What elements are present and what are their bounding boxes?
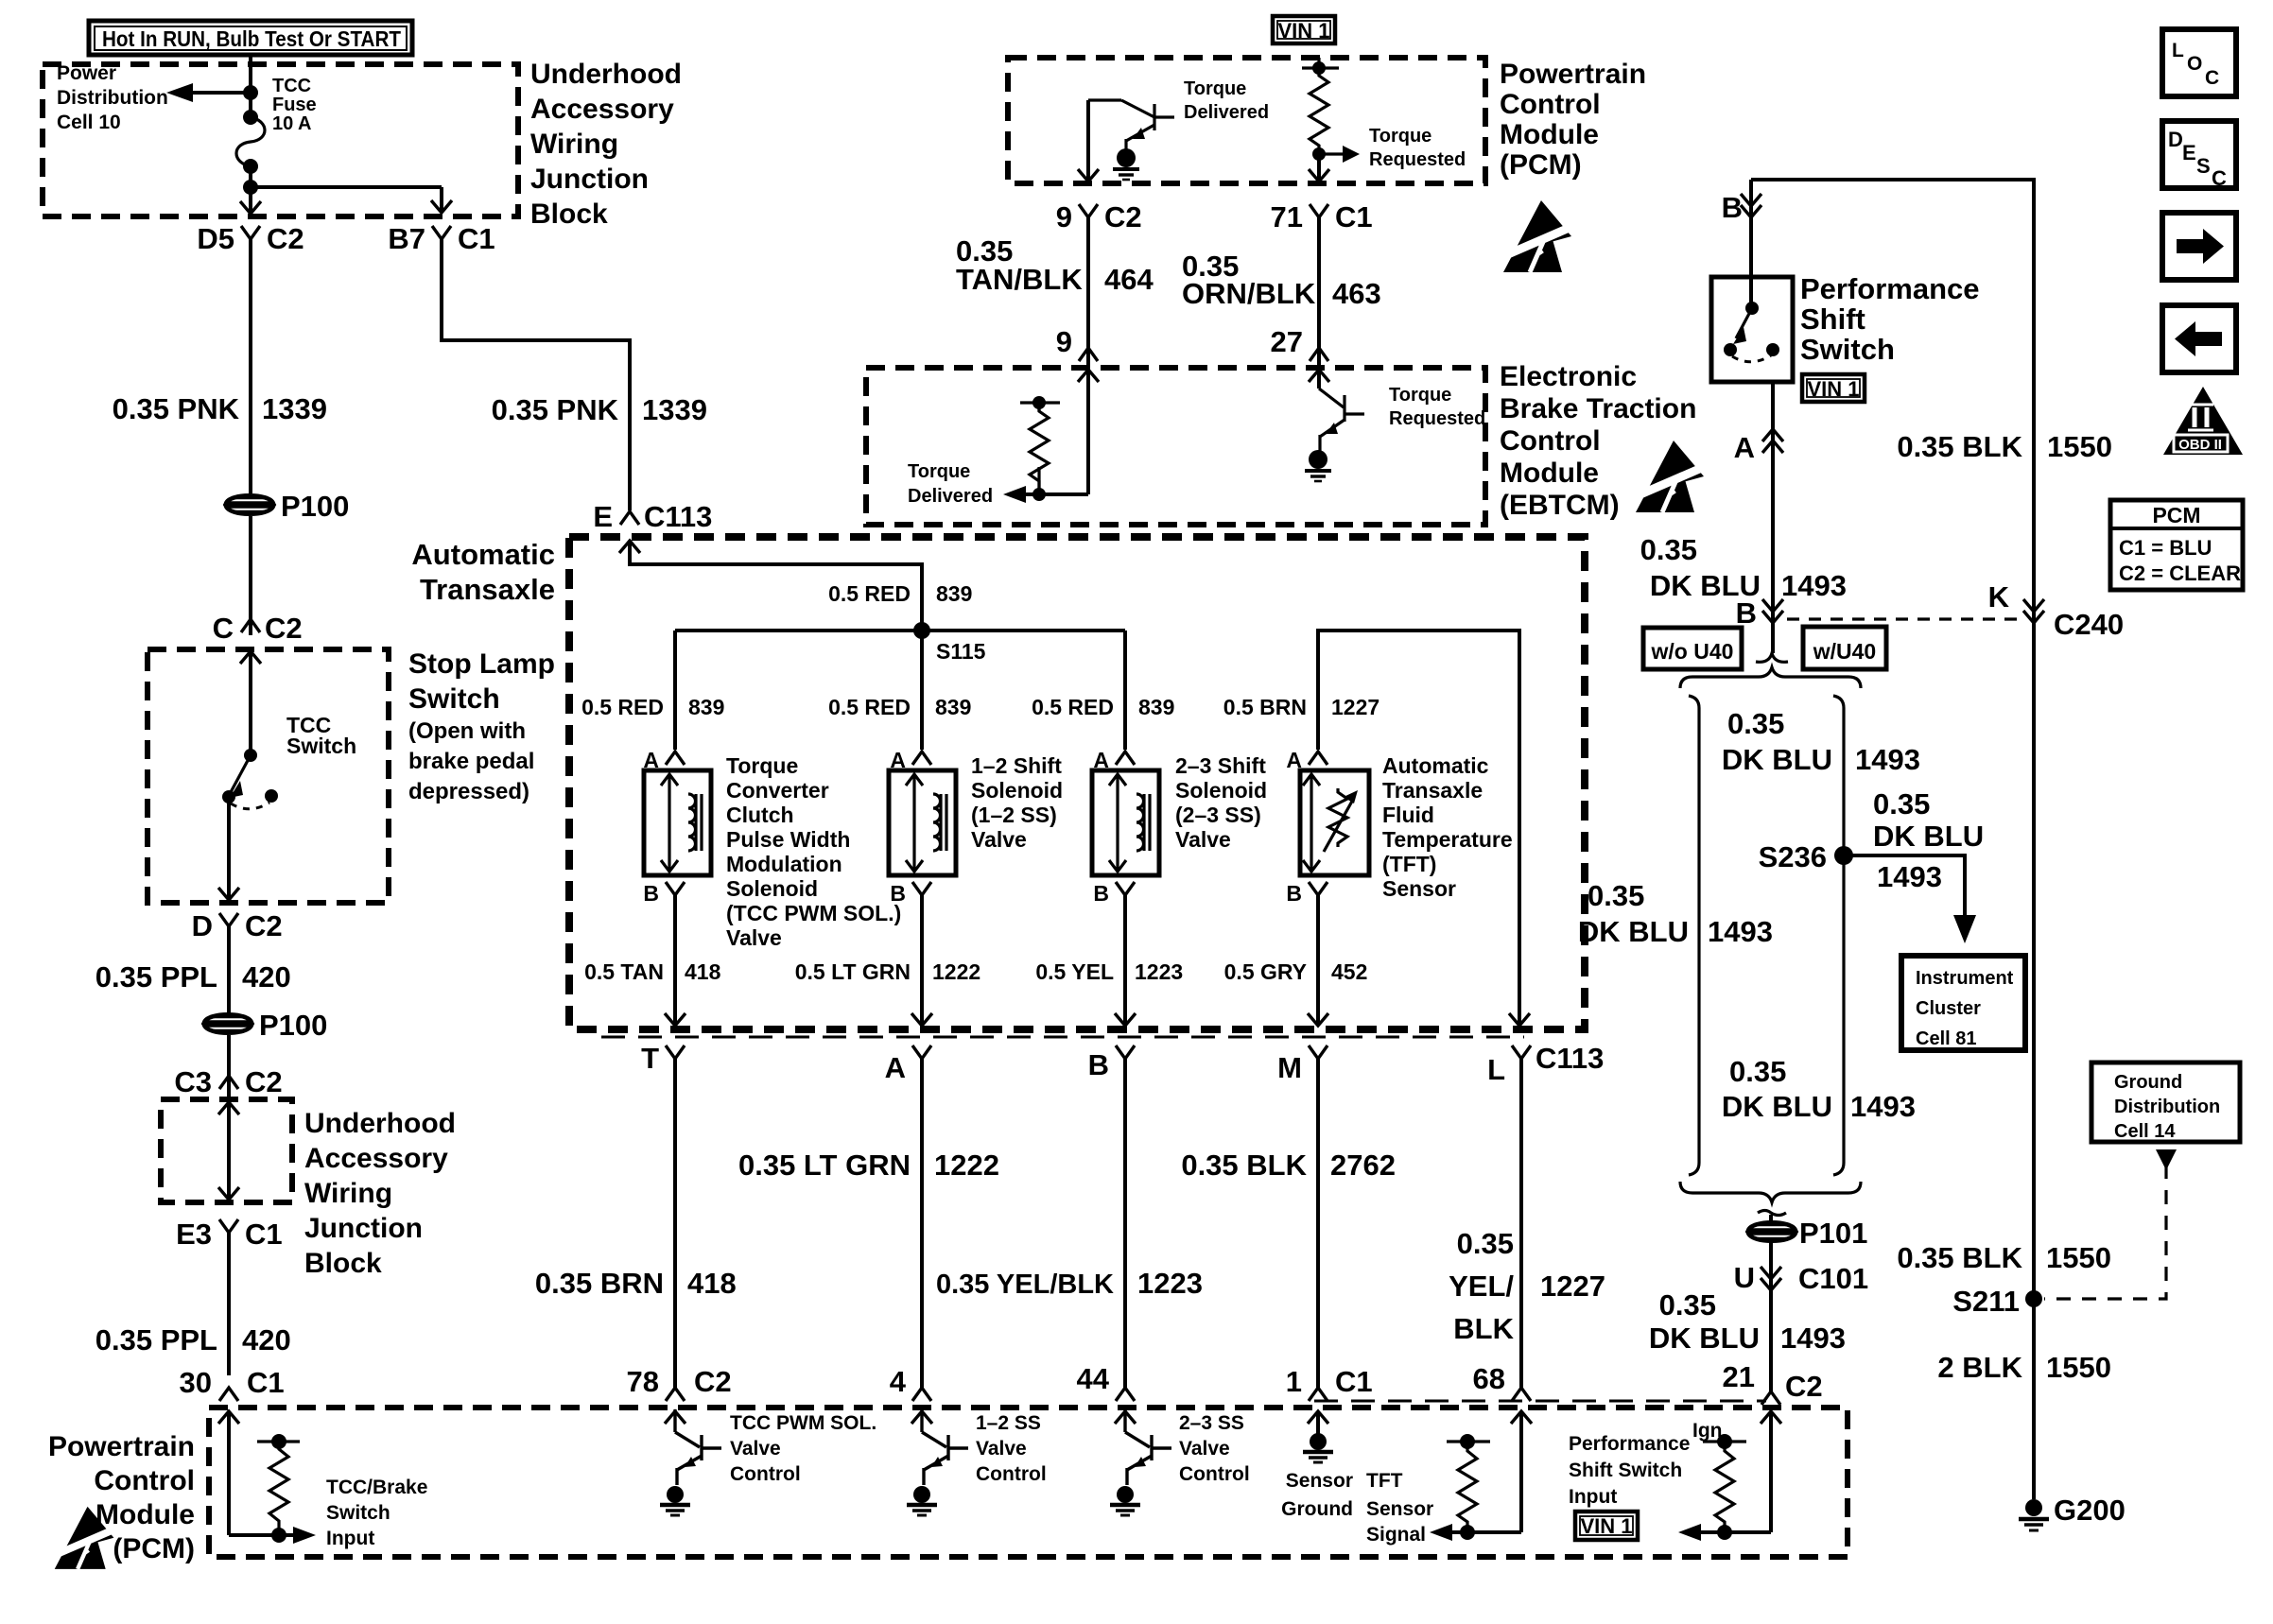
svg-text:C240: C240	[2054, 608, 2124, 641]
label VIN 1 (switch)	[1802, 374, 1865, 402]
connector pin 68	[1473, 1362, 1531, 1401]
svg-text:0.35: 0.35	[1659, 1288, 1716, 1322]
svg-text:YEL/: YEL/	[1449, 1270, 1514, 1303]
label 0.35 BRN 418	[535, 1267, 737, 1300]
bus wire S115	[675, 629, 1125, 632]
svg-text:Hot In RUN, Bulb Test Or START: Hot In RUN, Bulb Test Or START	[102, 26, 401, 51]
svg-text:0.5 RED: 0.5 RED	[1032, 695, 1114, 719]
icon LOC	[2162, 29, 2236, 96]
svg-text:Ground: Ground	[1281, 1498, 1353, 1520]
svg-text:B: B	[1286, 881, 1302, 906]
svg-text:Clutch: Clutch	[726, 803, 794, 827]
resistor Torque Requested (PCM)	[1302, 58, 1360, 163]
svg-text:Accessory: Accessory	[530, 94, 674, 125]
svg-text:0.5 LT GRN: 0.5 LT GRN	[795, 959, 911, 984]
connector B (switch)	[1722, 191, 1761, 224]
svg-text:(TCC PWM SOL.): (TCC PWM SOL.)	[726, 901, 901, 925]
svg-text:Torque: Torque	[1184, 78, 1246, 99]
svg-text:P101: P101	[1799, 1217, 1867, 1250]
svg-text:Valve: Valve	[1175, 827, 1231, 852]
svg-text:C2: C2	[694, 1365, 732, 1398]
svg-text:0.5 TAN: 0.5 TAN	[584, 959, 664, 984]
svg-text:2 BLK: 2 BLK	[1937, 1351, 2022, 1384]
label Torque Converter Clutch Pulse Width Modulation Solenoid (TCC PWM SOL.) Valve	[726, 753, 901, 950]
PCM box (bottom)	[209, 1408, 1848, 1557]
resistor TFT Sensor Signal	[1447, 1434, 1490, 1540]
svg-text:Shift: Shift	[1800, 302, 1865, 336]
label 0.5 YEL 1223	[1035, 959, 1183, 984]
label 2 BLK 1550	[1937, 1351, 2111, 1384]
label 0.5 RED 839 (feed)	[828, 581, 972, 606]
svg-text:Control: Control	[1179, 1463, 1250, 1485]
grommet P100 (upper)	[226, 495, 273, 514]
wire 0.35 BLK 1550 (top run)	[1751, 180, 2034, 1499]
svg-text:BLK: BLK	[1453, 1312, 1514, 1345]
svg-text:0.35 PNK: 0.35 PNK	[113, 392, 240, 425]
svg-text:VIN 1: VIN 1	[1580, 1514, 1632, 1538]
grommet P101	[1748, 1222, 1796, 1241]
label 2-3 Shift Solenoid (2-3 SS) Valve	[1175, 753, 1267, 852]
svg-text:C113: C113	[644, 500, 712, 533]
wire 0.5 YEL 1223	[1115, 895, 1136, 1026]
wire out of stop lamp switch	[218, 797, 239, 900]
EBTCM box	[866, 368, 1485, 525]
svg-text:0.35: 0.35	[1640, 533, 1697, 566]
svg-text:(TFT): (TFT)	[1382, 852, 1436, 876]
label 2-3 SS Valve Control	[1179, 1412, 1250, 1485]
svg-text:0.35 BLK: 0.35 BLK	[1181, 1149, 1307, 1182]
svg-text:463: 463	[1332, 277, 1381, 310]
svg-text:C1: C1	[1335, 200, 1373, 233]
wire 0.35 PPL 420 (lower)	[227, 1233, 231, 1375]
svg-text:Switch: Switch	[408, 683, 500, 715]
svg-text:Block: Block	[530, 199, 608, 230]
svg-text:0.35: 0.35	[1727, 707, 1784, 740]
label w/U40	[1803, 627, 1886, 669]
bundle merge brace (bottom)	[1680, 1182, 1861, 1222]
svg-text:Powertrain: Powertrain	[48, 1431, 195, 1462]
svg-text:Fuse: Fuse	[272, 95, 317, 115]
svg-text:P100: P100	[259, 1009, 327, 1042]
label Powertrain Control Module (PCM) (bottom)	[48, 1431, 195, 1564]
label TCC Fuse 10 A	[272, 76, 317, 134]
svg-text:68: 68	[1473, 1362, 1505, 1395]
wire P100 to C3	[227, 1035, 231, 1097]
label VIN 1 (top)	[1273, 16, 1335, 43]
svg-text:Transaxle: Transaxle	[420, 573, 555, 606]
icon arrow right	[2162, 213, 2236, 280]
svg-text:C: C	[213, 612, 234, 645]
wire PCM pin 71 C1 to EBTCM pin 27	[1309, 154, 1329, 382]
svg-text:420: 420	[242, 960, 291, 993]
svg-text:839: 839	[1138, 695, 1174, 719]
svg-text:1–2 SS: 1–2 SS	[976, 1412, 1041, 1434]
svg-text:Ign: Ign	[1692, 1420, 1723, 1442]
wire PCM pin 9 C2 to EBTCM pin 9	[1078, 100, 1099, 382]
svg-text:Stop Lamp: Stop Lamp	[408, 648, 555, 680]
svg-text:1550: 1550	[2046, 1241, 2111, 1274]
svg-text:0.5 GRY: 0.5 GRY	[1224, 959, 1307, 984]
svg-text:Sensor: Sensor	[1382, 876, 1456, 901]
svg-text:Solenoid: Solenoid	[971, 778, 1063, 803]
connector pin B (TFT sensor)	[1286, 881, 1327, 906]
svg-text:Torque: Torque	[1389, 385, 1451, 406]
svg-text:1493: 1493	[1850, 1090, 1916, 1123]
connector K C240	[1988, 580, 2125, 641]
svg-text:71: 71	[1271, 200, 1303, 233]
svg-text:Module: Module	[1500, 119, 1599, 150]
svg-text:2–3 Shift: 2–3 Shift	[1175, 753, 1266, 778]
svg-text:VIN 1: VIN 1	[1277, 19, 1329, 43]
svg-text:Valve: Valve	[730, 1438, 781, 1460]
svg-text:1: 1	[1286, 1365, 1302, 1398]
label TFT Sensor Signal	[1366, 1470, 1433, 1546]
wire E C113 to splice S115	[619, 541, 922, 631]
svg-text:Wiring: Wiring	[530, 129, 618, 160]
icon DESC	[2162, 121, 2236, 190]
wire 0.5 RED 839 to 1-2 solenoid	[920, 631, 924, 750]
connector pin 4	[890, 1365, 931, 1401]
svg-text:C1: C1	[247, 1366, 285, 1399]
svg-text:Cluster: Cluster	[1916, 998, 1981, 1019]
ground (Torque Delivered driver)	[1113, 148, 1139, 180]
connector E C113	[593, 500, 712, 533]
svg-text:Switch: Switch	[286, 734, 356, 758]
svg-text:A: A	[885, 1051, 906, 1084]
wire w/U40 branch (right arm)	[1833, 696, 1844, 1175]
svg-text:C: C	[2212, 166, 2227, 190]
wire 0.5 RED 839 to TCC solenoid	[673, 631, 677, 750]
svg-text:0.35: 0.35	[1457, 1227, 1514, 1260]
svg-text:B: B	[643, 881, 659, 906]
wire below fuse to D5	[240, 166, 261, 214]
connector 71 C1	[1271, 200, 1373, 233]
svg-text:464: 464	[1104, 263, 1154, 296]
svg-text:OBD II: OBD II	[2178, 437, 2222, 453]
svg-text:(PCM): (PCM)	[113, 1533, 195, 1564]
svg-text:0.5 YEL: 0.5 YEL	[1035, 959, 1114, 984]
svg-text:0.35 YEL/BLK: 0.35 YEL/BLK	[936, 1270, 1114, 1300]
svg-text:(Open with: (Open with	[408, 718, 526, 744]
svg-text:0.5 RED: 0.5 RED	[828, 581, 911, 606]
label Stop Lamp Switch (Open with brake pedal depressed)	[408, 648, 555, 804]
svg-text:Delivered: Delivered	[1184, 102, 1269, 123]
svg-text:C: C	[2205, 67, 2219, 89]
label 0.35 LT GRN 1222	[738, 1149, 999, 1182]
wire pin 1 to sensor ground	[1308, 1411, 1328, 1434]
connector U C101	[1734, 1261, 1869, 1295]
svg-text:30: 30	[180, 1366, 212, 1399]
svg-text:w/o U40: w/o U40	[1651, 639, 1734, 664]
solenoid TCC PWM (Torque Converter Clutch PWM Solenoid Valve)	[644, 770, 711, 875]
label Underhood Accessory Wiring Junction Block (lower)	[304, 1108, 456, 1279]
svg-text:0.35 BLK: 0.35 BLK	[1897, 1241, 2022, 1274]
svg-text:Requested: Requested	[1369, 149, 1466, 170]
svg-text:Cell 14: Cell 14	[2114, 1121, 2176, 1142]
transistor TCC PWM SOL Valve Control	[665, 1409, 721, 1485]
label 0.35 DK BLU 1493 (to pin 21)	[1649, 1288, 1846, 1355]
svg-text:G200: G200	[2054, 1494, 2126, 1527]
wire pin 21 internal (Ign)	[1678, 1411, 1781, 1541]
svg-text:Torque: Torque	[726, 753, 798, 778]
svg-text:Block: Block	[304, 1248, 382, 1279]
ESD symbol (top PCM)	[1501, 200, 1571, 272]
svg-text:418: 418	[687, 1267, 737, 1300]
wire 0.35 BRN 418	[673, 1059, 677, 1388]
svg-text:Module: Module	[1500, 458, 1599, 489]
connector pin A (TCC solenoid)	[643, 748, 685, 772]
svg-text:E: E	[2182, 141, 2196, 164]
label 0.35 BLK 1550 (lower)	[1897, 1241, 2111, 1274]
svg-text:Valve: Valve	[976, 1438, 1027, 1460]
label Torque Delivered (PCM)	[1184, 78, 1269, 123]
svg-text:Automatic: Automatic	[411, 538, 555, 571]
wire branch to B7	[251, 187, 452, 213]
svg-text:brake pedal: brake pedal	[408, 749, 534, 774]
resistor Performance Shift Switch Input	[1703, 1434, 1746, 1540]
svg-text:E3: E3	[176, 1218, 212, 1251]
connector L C113	[1487, 1042, 1604, 1086]
svg-text:C2 = CLEAR: C2 = CLEAR	[2119, 561, 2241, 585]
svg-text:0.35 BLK: 0.35 BLK	[1897, 430, 2022, 463]
svg-text:TCC PWM SOL.: TCC PWM SOL.	[730, 1412, 876, 1434]
label Powertrain Control Module (PCM)	[1500, 59, 1646, 181]
svg-text:Performance: Performance	[1800, 272, 1980, 305]
svg-text:K: K	[1988, 580, 2010, 613]
svg-text:27: 27	[1271, 325, 1303, 358]
label Performance Shift Switch	[1800, 272, 1980, 366]
svg-text:A: A	[1734, 431, 1755, 464]
svg-text:Module: Module	[95, 1499, 195, 1530]
svg-text:Control: Control	[1500, 89, 1601, 120]
connector pin A (2-3 solenoid)	[1093, 748, 1135, 772]
connector pin B (2-3 solenoid)	[1093, 881, 1135, 906]
svg-text:(1–2 SS): (1–2 SS)	[971, 803, 1057, 827]
svg-text:C2: C2	[245, 909, 283, 942]
svg-text:Solenoid: Solenoid	[1175, 778, 1267, 803]
svg-text:Accessory: Accessory	[304, 1143, 448, 1174]
svg-text:0.35: 0.35	[1873, 787, 1930, 821]
svg-text:Requested: Requested	[1389, 408, 1485, 429]
svg-text:Torque: Torque	[908, 461, 970, 482]
svg-text:Electronic: Electronic	[1500, 361, 1637, 392]
label Automatic Transaxle	[411, 538, 555, 606]
label Performance Shift Switch Input	[1569, 1433, 1690, 1508]
icon arrow left	[2162, 305, 2236, 372]
svg-text:TFT: TFT	[1366, 1470, 1403, 1492]
svg-text:Valve: Valve	[726, 925, 782, 950]
connector pin A (TFT sensor)	[1286, 748, 1327, 772]
wire 0.5 LT GRN 1222	[911, 895, 932, 1026]
svg-text:9: 9	[1056, 200, 1072, 233]
svg-text:0.35 PNK: 0.35 PNK	[492, 393, 619, 426]
svg-text:Converter: Converter	[726, 778, 829, 803]
connector D5 C2	[197, 222, 304, 255]
svg-text:44: 44	[1077, 1362, 1110, 1395]
svg-text:C1: C1	[458, 222, 495, 255]
arrow into C113 on L branch	[1509, 1013, 1530, 1026]
bundle split brace (top)	[1680, 653, 1861, 688]
svg-text:Powertrain: Powertrain	[1500, 59, 1646, 90]
svg-text:O: O	[2187, 53, 2202, 75]
svg-text:B: B	[1736, 596, 1757, 630]
sensor TFT (Automatic Transaxle Fluid Temperature)	[1300, 770, 1369, 875]
label 0.5 RED 839 (TCC)	[581, 695, 724, 719]
svg-text:C101: C101	[1798, 1262, 1868, 1295]
svg-text:C113: C113	[1536, 1042, 1604, 1075]
svg-text:1339: 1339	[642, 393, 707, 426]
svg-text:Input: Input	[326, 1528, 374, 1549]
wire 0.35 PNK 1339 (right, B7 to E C113)	[442, 239, 630, 510]
svg-text:Torque: Torque	[1369, 126, 1431, 147]
svg-text:0.5 RED: 0.5 RED	[581, 695, 664, 719]
svg-text:0.35 BRN: 0.35 BRN	[535, 1267, 664, 1300]
svg-text:Cell 10: Cell 10	[57, 112, 121, 133]
svg-text:DK BLU: DK BLU	[1649, 1322, 1760, 1355]
svg-text:C1 = BLU: C1 = BLU	[2119, 536, 2212, 560]
wire: feed from Hot box into junction block	[249, 55, 252, 117]
svg-text:E: E	[593, 500, 613, 533]
legend PCM connector colors	[2110, 500, 2243, 590]
svg-text:1493: 1493	[1780, 1322, 1846, 1355]
svg-text:Control: Control	[94, 1465, 195, 1496]
svg-text:DK BLU: DK BLU	[1873, 820, 1984, 853]
connector T C113	[641, 1042, 685, 1075]
svg-text:Distribution: Distribution	[57, 87, 168, 109]
svg-text:(PCM): (PCM)	[1500, 149, 1582, 181]
wire 0.5 TAN 418	[665, 895, 685, 1026]
svg-text:S236: S236	[1759, 840, 1827, 873]
svg-text:Performance: Performance	[1569, 1433, 1690, 1455]
svg-text:D: D	[192, 909, 213, 942]
fuse TCC Fuse 10 A	[236, 110, 265, 174]
label 0.5 RED 839 (2-3)	[1032, 695, 1174, 719]
label 0.35 BLK 2762	[1181, 1149, 1396, 1182]
svg-text:VIN 1: VIN 1	[1807, 377, 1859, 401]
svg-text:Wiring: Wiring	[304, 1178, 392, 1209]
resistor Torque Delivered (EBTCM)	[1020, 396, 1060, 501]
svg-text:Control: Control	[1500, 425, 1601, 457]
svg-text:4: 4	[890, 1365, 907, 1398]
svg-text:Valve: Valve	[1179, 1438, 1230, 1460]
svg-text:Underhood: Underhood	[304, 1108, 456, 1139]
label 0.35 ORN/BLK 463	[1182, 250, 1381, 310]
svg-text:T: T	[641, 1042, 659, 1075]
svg-text:Sensor: Sensor	[1286, 1470, 1353, 1492]
label 0.35 YEL/BLK 1223	[936, 1267, 1203, 1300]
svg-text:C2: C2	[267, 222, 304, 255]
ground (TCC PWM driver)	[660, 1486, 690, 1515]
svg-text:B: B	[1722, 191, 1743, 224]
svg-text:L: L	[1487, 1053, 1505, 1086]
svg-text:Modulation: Modulation	[726, 852, 842, 876]
label: Hot In RUN, Bulb Test Or START	[89, 21, 412, 55]
automatic transaxle box	[569, 537, 1585, 1029]
svg-text:0.35 PPL: 0.35 PPL	[95, 960, 217, 993]
svg-text:0.35 PPL: 0.35 PPL	[95, 1323, 217, 1356]
connector E3 C1	[176, 1218, 283, 1251]
svg-text:C1: C1	[1335, 1365, 1373, 1398]
wire w/o U40 branch (left arm)	[1689, 696, 1699, 1175]
svg-text:418: 418	[685, 959, 721, 984]
svg-text:depressed): depressed)	[408, 779, 529, 804]
label 0.35 DK BLU 1493 (left arm)	[1578, 879, 1773, 948]
wire A of switch down to C240	[1762, 382, 1783, 653]
svg-text:1550: 1550	[2047, 430, 2112, 463]
splice S211	[1952, 1285, 2042, 1318]
performance shift switch	[1711, 277, 1793, 382]
label 0.35 PPL 420 (upper)	[95, 960, 291, 993]
svg-text:Solenoid: Solenoid	[726, 876, 818, 901]
wire 0.35 PPL 420 (upper)	[227, 926, 231, 1013]
label Torque Requested (PCM)	[1369, 126, 1466, 170]
svg-text:Transaxle: Transaxle	[1382, 778, 1483, 803]
wire P100 to C C2	[249, 516, 252, 635]
wire 0.35 BLK 2762	[1316, 1059, 1320, 1388]
connector pin 21 C2	[1723, 1360, 1823, 1405]
wire into stop lamp switch	[240, 651, 261, 755]
wire P101 to pin 21	[1769, 1241, 1773, 1391]
svg-text:DK BLU: DK BLU	[1722, 743, 1832, 776]
svg-text:1227: 1227	[1331, 695, 1379, 719]
svg-text:S115: S115	[936, 639, 986, 664]
label 0.5 BRN 1227	[1223, 695, 1379, 719]
splice S236	[1759, 840, 1853, 873]
svg-text:S211: S211	[1952, 1285, 2020, 1318]
svg-text:1493: 1493	[1877, 860, 1942, 893]
svg-text:TCC: TCC	[272, 76, 311, 96]
wire 0.5 BRN 1227 TFT feed and L branch	[1318, 631, 1519, 1026]
label 1-2 Shift Solenoid (1-2 SS) Valve	[971, 753, 1063, 852]
svg-text:(EBTCM): (EBTCM)	[1500, 490, 1620, 521]
svg-text:0.35 LT GRN: 0.35 LT GRN	[738, 1149, 911, 1182]
svg-text:C2: C2	[1104, 200, 1142, 233]
svg-text:C2: C2	[265, 612, 303, 645]
resistor TCC/Brake Switch Input	[257, 1434, 300, 1543]
svg-text:420: 420	[242, 1323, 291, 1356]
svg-text:Valve: Valve	[971, 827, 1027, 852]
svg-text:1223: 1223	[1135, 959, 1183, 984]
svg-text:Cell 81: Cell 81	[1916, 1028, 1976, 1049]
solenoid 2-3 Shift (2-3 SS) Valve	[1092, 770, 1159, 875]
label TCC/Brake Switch Input	[326, 1477, 427, 1549]
label VIN 1 (bottom)	[1575, 1512, 1638, 1540]
wire Torque Delivered output (EBTCM)	[1003, 368, 1088, 503]
label TCC PWM SOL. Valve Control	[730, 1412, 876, 1485]
PCM box (top)	[1008, 58, 1485, 183]
svg-text:PCM: PCM	[2152, 503, 2200, 527]
junction block box: Underhood Accessory Wiring Junction Block (top)	[43, 64, 518, 216]
splice S115	[913, 622, 986, 664]
svg-text:w/U40: w/U40	[1813, 639, 1876, 664]
svg-text:Signal: Signal	[1366, 1524, 1426, 1546]
connector pin B (TCC solenoid)	[643, 881, 685, 906]
transistor Torque Requested (EBTCM)	[1319, 368, 1364, 452]
connector line C113 (bottom)	[601, 1036, 1524, 1039]
ground Sensor Ground	[1303, 1433, 1333, 1462]
svg-text:21: 21	[1723, 1360, 1755, 1393]
label 0.35 PPL 420 (lower)	[95, 1323, 291, 1356]
connector B7 C1	[388, 222, 495, 255]
wire through junction block (lower)	[218, 1102, 239, 1200]
label Electronic Brake Traction Control Module (EBTCM)	[1500, 361, 1696, 521]
label 1-2 SS Valve Control	[976, 1412, 1047, 1485]
svg-text:C2: C2	[1785, 1370, 1823, 1403]
svg-text:452: 452	[1331, 959, 1367, 984]
svg-text:1493: 1493	[1855, 743, 1920, 776]
svg-text:ORN/BLK: ORN/BLK	[1182, 277, 1316, 310]
svg-text:1493: 1493	[1781, 569, 1847, 602]
